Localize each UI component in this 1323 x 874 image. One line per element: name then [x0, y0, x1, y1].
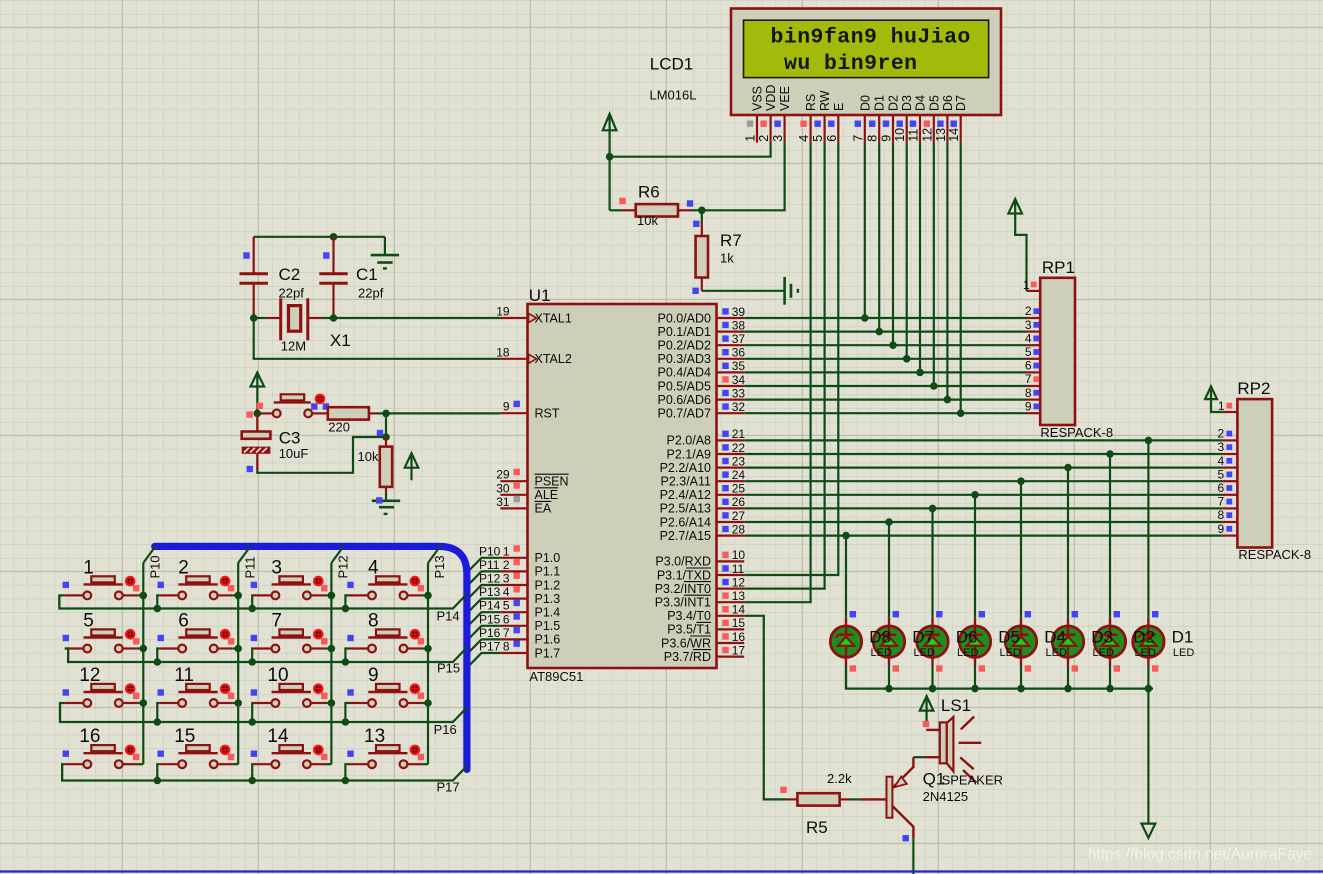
wire key 9 right terminal to column: [422, 702, 428, 704]
svg-text:P3.3/INT1: P3.3/INT1: [655, 596, 711, 610]
svg-text:D3: D3: [900, 95, 914, 111]
wire key 5 left terminal to row: [65, 649, 68, 663]
capacitor C2: [240, 237, 268, 318]
svg-text:P1.2: P1.2: [535, 578, 561, 592]
svg-text:5: 5: [811, 135, 825, 142]
label LCD1: [650, 55, 693, 74]
wire keypad column P12: [331, 546, 343, 764]
svg-text:11: 11: [907, 129, 921, 142]
svg-text:19: 19: [496, 305, 510, 319]
ground (right of R7): [785, 277, 798, 305]
U1 pin 10 P3.0: [655, 548, 745, 569]
label D1: [1172, 628, 1194, 647]
wire RST down to 10k: [385, 413, 387, 437]
power terminal (near 10k): [405, 453, 419, 480]
value 2.2k (R5): [827, 771, 852, 786]
power terminal (RP1): [1008, 199, 1022, 214]
svg-text:P1.6: P1.6: [535, 633, 561, 647]
wire P1.7 to keypad bus: [467, 653, 501, 668]
svg-text:D2: D2: [1133, 628, 1155, 647]
svg-text:2: 2: [1025, 304, 1032, 318]
wire to XTAL2: [254, 318, 501, 359]
svg-text:P2.7/A15: P2.7/A15: [660, 529, 711, 543]
U1 pin 17 P3.7: [664, 643, 746, 664]
label R5: [806, 818, 828, 837]
svg-text:P16: P16: [479, 626, 501, 640]
svg-text:12: 12: [920, 128, 934, 142]
svg-text:P17: P17: [479, 640, 501, 654]
transistor Q1 2N4125: [860, 757, 914, 841]
node column 1 row 0 junction: [234, 592, 242, 600]
wire D3 cathode to ground bus: [1067, 666, 1069, 689]
svg-text:9: 9: [880, 135, 894, 142]
wire P0.3 row to RP1 pin 5: [744, 358, 1026, 360]
node row 0 leg junction: [154, 605, 162, 613]
wire D1 cathode to ground bus: [1147, 666, 1149, 689]
LCD1 pin 10 D3: [893, 95, 914, 143]
wire D4 cathode to ground bus: [1020, 666, 1022, 689]
LCD1 pin 1 VSS: [744, 86, 765, 143]
node row 1 leg junction: [154, 658, 162, 666]
svg-text:5: 5: [503, 599, 510, 613]
ground (below 10k): [372, 497, 400, 514]
node ground bus junction: [971, 685, 979, 693]
svg-text:P0.0/AD0: P0.0/AD0: [657, 311, 711, 325]
svg-text:RESPACK-8: RESPACK-8: [1238, 547, 1311, 562]
U1 pin 23 P2.2: [660, 454, 746, 475]
wire LCD D6 to P0.6: [946, 143, 948, 400]
net label P17 (keypad): [437, 780, 460, 795]
wire key 1 right terminal to column: [137, 594, 143, 596]
svg-text:1: 1: [744, 135, 758, 142]
svg-text:P3.4/T0: P3.4/T0: [667, 609, 711, 623]
U1 pin 31 EA: [496, 495, 552, 516]
wire key 10 right terminal to column: [326, 702, 332, 704]
svg-text:3: 3: [771, 135, 785, 142]
RP2 pin 6: [1218, 481, 1238, 495]
value LED (D6): [957, 647, 978, 659]
node P2.5/LED junction: [929, 505, 937, 513]
wire Q1 emitter to speaker: [913, 756, 924, 758]
U1 pin 11 P3.1: [657, 562, 745, 583]
net label P14 (keypad): [437, 609, 460, 624]
node ground bus junction: [929, 685, 937, 693]
resistor R6: [610, 198, 702, 217]
push button key 4: [347, 557, 424, 599]
net label P15 (keypad): [437, 661, 460, 676]
node row 2 leg junction: [248, 718, 256, 726]
node column 2 row 0 junction: [328, 592, 336, 600]
RP2 pin 8: [1218, 508, 1238, 522]
svg-text:P10: P10: [479, 544, 501, 558]
svg-text:P11: P11: [479, 558, 500, 572]
wire LCD D2 to P0.2: [892, 143, 894, 346]
label C3: [279, 429, 301, 448]
svg-text:D5: D5: [998, 628, 1020, 647]
value 10uF: [279, 446, 309, 461]
svg-text:2.2k: 2.2k: [827, 771, 852, 786]
value 10k (R6): [637, 213, 658, 228]
node D6/P0.6 junction: [944, 396, 952, 404]
svg-text:26: 26: [732, 495, 746, 509]
wire key 2 left terminal to row: [157, 595, 159, 608]
node P2.4/LED junction: [971, 491, 979, 499]
svg-text:2: 2: [757, 135, 771, 142]
svg-text:RESPACK-8: RESPACK-8: [1040, 425, 1113, 440]
svg-text:D4: D4: [1044, 628, 1066, 647]
label R7: [720, 231, 742, 250]
svg-text:RP1: RP1: [1042, 258, 1075, 277]
wire P2.6 row to RP2 pin 8: [744, 521, 1222, 523]
RP2 pin 1: [1218, 399, 1237, 413]
node C1 top junction: [330, 233, 338, 241]
svg-text:220: 220: [328, 420, 350, 435]
U1 pin 1 P1.0: [500, 544, 560, 565]
node row 3 leg junction: [342, 777, 350, 785]
svg-text:P13: P13: [479, 585, 501, 599]
U1 pin 29 PSEN: [496, 468, 568, 489]
label D7: [912, 628, 934, 647]
LED D1: [1133, 611, 1164, 672]
wire VDD: LCD pin2 to power rail: [610, 143, 771, 157]
svg-text:PSEN: PSEN: [535, 475, 569, 489]
net label P14: [479, 599, 501, 613]
svg-text:LED: LED: [1000, 647, 1021, 659]
svg-text:12: 12: [732, 575, 746, 589]
svg-text:P1.1: P1.1: [535, 565, 561, 579]
wire LCD D1 to P0.1: [878, 143, 880, 332]
node D5/P0.5 junction: [930, 382, 938, 390]
svg-text:8: 8: [866, 135, 880, 142]
node ground bus junction: [1145, 685, 1153, 693]
U1 pin 4 P1.3: [500, 585, 560, 606]
RP2 pin 4: [1218, 454, 1238, 468]
node row 2 leg junction: [342, 718, 350, 726]
wire key 2 right terminal to column: [232, 594, 238, 596]
node D2/P0.2 junction: [889, 341, 897, 349]
wire key 12 left terminal to row: [60, 703, 65, 722]
node column 0 row 1 junction: [140, 645, 148, 653]
svg-text:P3.1/TXD: P3.1/TXD: [657, 568, 711, 582]
net label P13 (keypad): [432, 555, 447, 578]
wire P3.4/T0 down to R5: [744, 616, 787, 800]
U1 pin 27 P2.6: [660, 509, 746, 530]
wire LED D6 feed from P2.5: [931, 508, 933, 617]
node reset left junction: [246, 403, 263, 418]
node row 0 leg junction: [248, 605, 256, 613]
LCD1 pin 3 VEE: [771, 86, 792, 143]
svg-text:4: 4: [1218, 454, 1225, 468]
push button key 3: [251, 557, 328, 599]
U1 pin 35 P0.4: [657, 359, 745, 380]
resistor pack RP1 body: [1040, 278, 1075, 425]
svg-text:P2.4/A12: P2.4/A12: [660, 488, 711, 502]
svg-text:10uF: 10uF: [279, 446, 309, 461]
wire key 4 left terminal to row: [345, 595, 349, 608]
U1 pin 24 P2.3: [660, 468, 745, 489]
svg-text:3: 3: [503, 572, 510, 586]
RP2 pin 9: [1218, 522, 1238, 536]
RP1 pin 7: [1025, 372, 1040, 386]
wire key 15 left terminal to row: [157, 764, 159, 780]
svg-text:P16: P16: [434, 722, 457, 737]
label Q1: [923, 769, 946, 788]
LED D4: [1005, 611, 1036, 672]
wire LED D7 feed from P2.6: [888, 522, 890, 618]
net label P12: [479, 572, 501, 586]
value 2N4125: [923, 789, 969, 804]
wire LCD D4 to P0.4: [919, 143, 921, 373]
svg-text:D5: D5: [927, 95, 941, 111]
node column 1 row 1 junction: [234, 645, 242, 653]
svg-text:28: 28: [732, 522, 746, 536]
push button key 15: [158, 726, 235, 768]
node P2.3/LED junction: [1017, 477, 1025, 485]
wire LED D8 feed from P2.7: [845, 536, 847, 618]
node crystal left junction: [250, 314, 258, 322]
svg-text:9: 9: [1218, 522, 1225, 536]
svg-text:38: 38: [732, 318, 746, 332]
svg-text:D1: D1: [1172, 628, 1194, 647]
node D4/P0.4 junction: [916, 369, 924, 377]
svg-text:10: 10: [893, 128, 907, 142]
push button key 14: [251, 726, 328, 768]
node P2.0/LED junction: [1145, 437, 1153, 445]
svg-text:P3.5/T1: P3.5/T1: [667, 623, 711, 637]
svg-text:24: 24: [732, 468, 746, 482]
svg-text:18: 18: [496, 345, 510, 359]
svg-text:31: 31: [496, 495, 510, 509]
bottom blue line: [0, 870, 1323, 872]
svg-text:LED: LED: [1093, 647, 1114, 659]
node ground bus junction: [1064, 685, 1072, 693]
LCD1 pin 13 D6: [934, 95, 955, 143]
U1 pin 32 P0.7: [657, 400, 745, 421]
svg-text:XTAL1: XTAL1: [535, 311, 572, 325]
RP2 pin 3: [1218, 440, 1238, 454]
node D3/P0.3 junction: [903, 355, 911, 363]
svg-text:9: 9: [503, 400, 510, 414]
label D3: [1091, 628, 1113, 647]
U1 pin 33 P0.6: [657, 386, 745, 407]
U1 pin 9 RST: [500, 400, 559, 421]
svg-text:P14: P14: [479, 599, 501, 613]
wire VEE: LCD pin3 down to R6/R7 junction: [702, 143, 785, 211]
wire P2.5 row to RP2 pin 7: [744, 507, 1222, 509]
node crystal right junction: [330, 314, 338, 322]
wire P3.1/TXD to LCD E: [744, 143, 838, 575]
node row 3 leg junction: [154, 777, 162, 785]
wire P2.3 row to RP2 pin 5: [744, 480, 1222, 482]
svg-text:P3.7/RD: P3.7/RD: [664, 650, 711, 664]
svg-text:34: 34: [732, 373, 746, 387]
value LM016L: [650, 88, 697, 103]
svg-text:RP2: RP2: [1237, 379, 1270, 398]
wire P0.0 row to RP1 pin 2: [744, 317, 1026, 319]
U1 pin 25 P2.4: [660, 482, 746, 503]
wire key 6 left terminal to row: [157, 649, 159, 663]
svg-text:RW: RW: [818, 90, 832, 111]
svg-text:EA: EA: [535, 502, 552, 516]
label C2: [279, 265, 301, 284]
label X1: [330, 331, 351, 350]
wire power rail down to R6: [608, 157, 610, 211]
node D1/P0.1 junction: [875, 328, 883, 336]
svg-text:VEE: VEE: [778, 86, 792, 111]
svg-text:D7: D7: [912, 628, 934, 647]
wire P1.1 to keypad bus: [467, 571, 501, 586]
resistor 220 (reset): [322, 407, 386, 419]
svg-text:P12: P12: [479, 572, 501, 586]
wire ground bus down to arrow: [1147, 689, 1149, 823]
svg-text:P1.5: P1.5: [535, 619, 561, 633]
node column 1 row 2 junction: [234, 699, 242, 707]
power terminal (RP2): [1205, 386, 1217, 399]
svg-text:LED: LED: [1135, 647, 1156, 659]
net label P11 (keypad): [242, 556, 257, 578]
node column 3 row 0 junction: [424, 592, 432, 600]
svg-text:P0.4/AD4: P0.4/AD4: [657, 366, 711, 380]
node column 2 row 1 junction: [328, 645, 336, 653]
wire keypad row P17: [62, 764, 467, 780]
svg-text:P1.7: P1.7: [535, 646, 561, 660]
svg-text:P2.6/A14: P2.6/A14: [660, 515, 711, 529]
svg-text:3: 3: [1025, 318, 1032, 332]
LCD1 pin 12 D5: [920, 95, 941, 143]
svg-text:4: 4: [503, 585, 510, 599]
svg-text:12M: 12M: [281, 339, 306, 354]
node R6/R7/VEE junction: [698, 207, 706, 215]
push button key 10: [251, 665, 328, 707]
svg-text:https://blog.csdn.net/AuroraFa: https://blog.csdn.net/AuroraFaye: [1088, 846, 1312, 863]
node row 2 leg junction: [154, 718, 162, 726]
svg-text:39: 39: [732, 305, 746, 319]
label D2: [1133, 628, 1155, 647]
RP1 pin 8: [1025, 386, 1040, 400]
wire P0.4 row to RP1 pin 6: [744, 371, 1026, 373]
svg-text:P10: P10: [148, 555, 163, 578]
label R6: [638, 183, 660, 202]
wire LCD D7 to P0.7: [960, 143, 962, 414]
value AT89C51: [529, 669, 583, 684]
svg-text:2: 2: [1218, 427, 1225, 441]
value LED (D2): [1135, 647, 1156, 659]
node row 3 leg junction: [248, 777, 256, 785]
wire key 13 right terminal to column: [422, 763, 428, 765]
wire key 8 right terminal to column: [422, 647, 428, 649]
svg-text:P13: P13: [432, 555, 447, 578]
svg-text:17: 17: [732, 643, 746, 657]
wire P2.7 row to RP2 pin 9: [744, 534, 1222, 536]
svg-text:7: 7: [1025, 372, 1032, 386]
node D0/P0.0 junction: [861, 314, 869, 322]
LED D8: [830, 611, 861, 672]
svg-text:P0.2/AD2: P0.2/AD2: [657, 339, 711, 353]
svg-text:LED: LED: [1046, 647, 1067, 659]
node column 0 row 2 junction: [140, 699, 148, 707]
U1 pin 13 P3.3: [655, 589, 746, 610]
svg-text:10: 10: [732, 548, 746, 562]
node ground bus junction: [885, 685, 893, 693]
svg-text:36: 36: [732, 346, 746, 360]
svg-text:R5: R5: [806, 818, 828, 837]
svg-text:22pf: 22pf: [279, 286, 305, 301]
svg-text:P3.2/INT0: P3.2/INT0: [655, 582, 711, 596]
svg-text:C3: C3: [279, 429, 301, 448]
node P2.2/LED junction: [1064, 464, 1072, 472]
svg-text:LED: LED: [871, 647, 892, 659]
wire keypad row P16: [60, 703, 467, 722]
value 220: [328, 420, 350, 435]
net label P10: [479, 544, 501, 558]
svg-text:P1.0: P1.0: [535, 551, 561, 565]
U1 pin 28 P2.7: [660, 522, 746, 543]
LED D7: [873, 611, 904, 672]
value LED (D3): [1093, 647, 1114, 659]
svg-text:VDD: VDD: [764, 85, 778, 111]
RP1 pin 3: [1025, 318, 1040, 332]
svg-text:13: 13: [732, 589, 746, 603]
wire D7 cathode to ground bus: [888, 666, 890, 689]
svg-text:4: 4: [1025, 331, 1032, 345]
ground (top, right of C1): [371, 237, 399, 269]
svg-text:6: 6: [1025, 359, 1032, 373]
svg-text:P15: P15: [479, 612, 501, 626]
svg-text:35: 35: [732, 359, 746, 373]
push button key 8: [347, 611, 424, 653]
U1 pin 37 P0.2: [657, 332, 745, 353]
svg-text:P2.5/A13: P2.5/A13: [660, 502, 711, 516]
wire key 1 left terminal to row: [59, 595, 64, 608]
power terminal VCC (near LCD): [603, 114, 617, 157]
wire P0.6 row to RP1 pin 8: [744, 399, 1026, 401]
U1 pin 14 P3.4: [667, 603, 745, 624]
label C1: [356, 265, 378, 284]
RP2 pin 7: [1218, 495, 1238, 509]
wire key 11 left terminal to row: [157, 703, 159, 722]
value 22pf (C2): [279, 286, 305, 301]
svg-text:D6: D6: [956, 628, 978, 647]
svg-text:LCD1: LCD1: [650, 55, 693, 74]
svg-text:P0.7/AD7: P0.7/AD7: [657, 407, 711, 421]
LED D6: [917, 611, 948, 672]
watermark: [1088, 846, 1312, 863]
push button key 1: [63, 557, 140, 599]
wire key 9 left terminal to row: [345, 703, 349, 722]
label RP2: [1237, 379, 1270, 398]
value SPEAKER: [942, 772, 1003, 787]
U1 pin 36 P0.3: [657, 346, 745, 367]
net label P16: [479, 626, 501, 640]
svg-text:16: 16: [732, 630, 746, 644]
keypad bus (blue): [155, 546, 467, 769]
capacitor C1: [319, 237, 347, 318]
resistor R7: [692, 210, 708, 294]
node row 0 leg junction: [342, 605, 350, 613]
svg-text:LM016L: LM016L: [650, 88, 697, 103]
U1 pin 26 P2.5: [660, 495, 746, 516]
svg-text:37: 37: [732, 332, 746, 346]
RP1 pin 1: [1023, 278, 1040, 292]
push button key 12: [63, 665, 140, 707]
svg-text:X1: X1: [330, 331, 351, 350]
svg-text:P2.1/A9: P2.1/A9: [667, 447, 712, 461]
svg-text:22: 22: [732, 441, 746, 455]
wire key 3 right terminal to column: [326, 594, 332, 596]
svg-text:5: 5: [1218, 467, 1225, 481]
svg-text:E: E: [832, 103, 846, 111]
node RST junction: [382, 410, 390, 418]
